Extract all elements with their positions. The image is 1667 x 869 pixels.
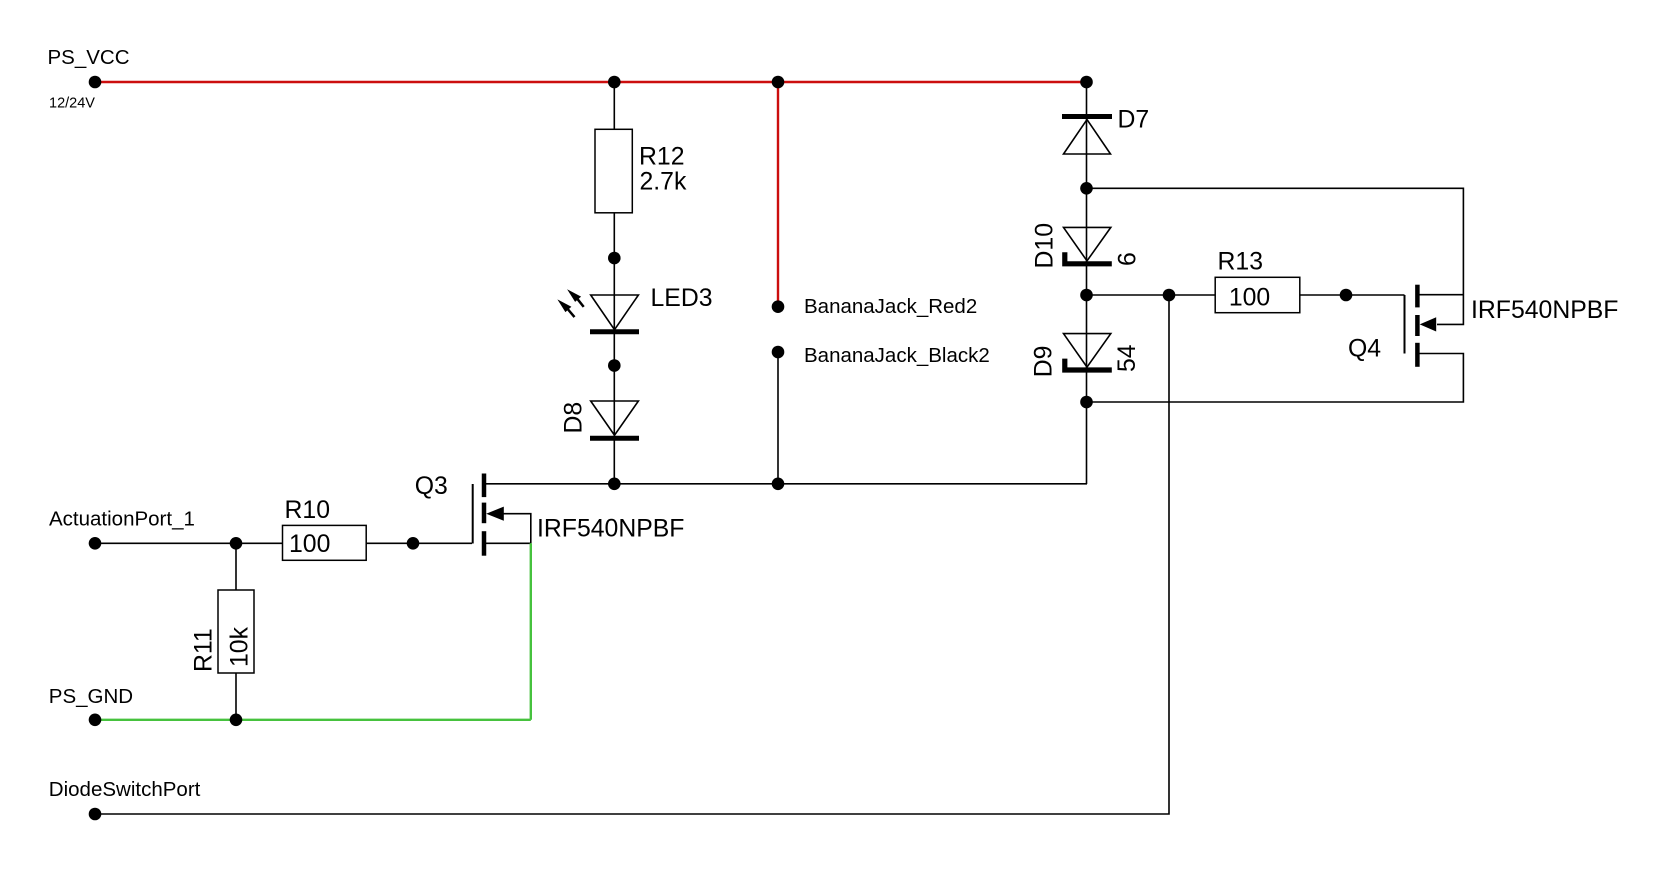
svg-text:D7: D7 (1118, 107, 1150, 134)
svg-text:Q4: Q4 (1348, 335, 1381, 362)
svg-text:R13: R13 (1218, 249, 1264, 276)
svg-text:IRF540NPBF: IRF540NPBF (1471, 297, 1618, 324)
svg-text:54: 54 (1114, 344, 1141, 372)
svg-text:100: 100 (1229, 285, 1270, 312)
svg-text:PS_VCC: PS_VCC (48, 46, 130, 69)
svg-text:LED3: LED3 (651, 285, 713, 312)
svg-text:12/24V: 12/24V (49, 96, 95, 112)
svg-text:IRF540NPBF: IRF540NPBF (537, 515, 684, 542)
svg-text:2.7k: 2.7k (640, 169, 687, 196)
svg-text:BananaJack_Red2: BananaJack_Red2 (804, 295, 977, 318)
svg-text:R11: R11 (191, 628, 218, 672)
svg-text:100: 100 (289, 531, 330, 558)
svg-text:D9: D9 (1031, 346, 1058, 378)
svg-text:R10: R10 (285, 497, 331, 524)
svg-text:10k: 10k (227, 626, 254, 667)
svg-text:D8: D8 (560, 402, 587, 434)
svg-text:D10: D10 (1032, 223, 1059, 269)
svg-text:BananaJack_Black2: BananaJack_Black2 (804, 344, 990, 367)
svg-text:PS_GND: PS_GND (49, 685, 133, 708)
svg-text:ActuationPort_1: ActuationPort_1 (49, 508, 195, 531)
svg-text:DiodeSwitchPort: DiodeSwitchPort (49, 778, 201, 801)
svg-text:Q3: Q3 (415, 473, 448, 500)
svg-text:R12: R12 (639, 144, 685, 171)
svg-text:6: 6 (1115, 252, 1142, 266)
